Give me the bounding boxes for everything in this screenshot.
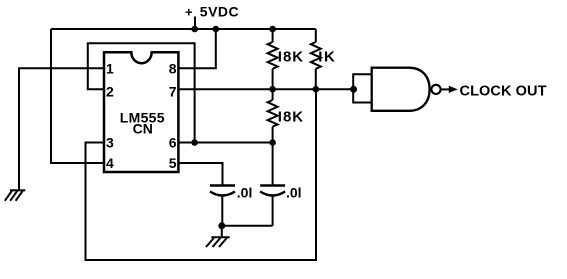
ground (left, pin 1): [5, 190, 26, 201]
logic gate U2 NAND body: [372, 68, 430, 111]
svg-text:CLOCK OUT: CLOCK OUT: [460, 83, 547, 99]
svg-text:.0l: .0l: [286, 185, 302, 201]
output arrow: [442, 88, 450, 90]
wire pin 5 to C1: [178, 163, 222, 186]
ground (bottom, caps): [206, 226, 230, 247]
junction dot R2 bottom on pin 6 line: [269, 139, 276, 146]
wire pin 8 to VCC rail: [178, 29, 215, 68]
inversion bubble: [431, 85, 440, 94]
junction dot caps to ground: [218, 222, 225, 229]
wire VCC rail to pin 4: [51, 29, 104, 163]
IC U1 LM555 outline with notch: [104, 52, 178, 172]
svg-text:.0l: .0l: [237, 185, 253, 201]
junction dot tie at pin 6 line: [191, 139, 198, 146]
svg-text:5VDC: 5VDC: [200, 3, 239, 19]
svg-text:4: 4: [106, 155, 114, 171]
svg-text:IK: IK: [318, 49, 336, 66]
junction dot pin 8 riser on rail: [213, 26, 220, 33]
junction dot +5VDC tap: [191, 26, 198, 33]
junction dot R1 top on rail: [269, 26, 276, 33]
resistor R2 18K (lower): [268, 89, 305, 142]
svg-text:1: 1: [106, 61, 114, 77]
svg-text:6: 6: [169, 134, 177, 150]
svg-text:I8K: I8K: [278, 49, 304, 66]
junction dot NAND input: [350, 86, 357, 93]
capacitor C2 .01: [260, 143, 301, 226]
svg-text:2: 2: [106, 83, 114, 99]
wire pin 6 node: [178, 142, 272, 144]
svg-text:8: 8: [169, 61, 177, 77]
wire C1/C2 bottoms: [222, 225, 273, 227]
svg-text:7: 7: [169, 83, 177, 99]
svg-text:I8K: I8K: [278, 109, 304, 126]
svg-text:CN: CN: [133, 120, 153, 136]
svg-text:5: 5: [169, 155, 177, 171]
power +5VDC: [185, 3, 239, 29]
resistor R1 18K (upper): [268, 29, 305, 89]
svg-text:3: 3: [106, 134, 114, 150]
svg-text:+: +: [185, 5, 193, 20]
wire pin 7 node: [178, 88, 353, 90]
resistor R3 1K: [311, 29, 337, 89]
logic gate NAND input tie box: [353, 74, 372, 102]
wire VCC rail: [51, 28, 316, 30]
wire pin 2 to pin 6 tie: [88, 43, 195, 142]
capacitor C1 .01: [210, 185, 252, 226]
wire pin 1 to ground: [19, 68, 104, 189]
junction dot R1 bottom on pin 7 line: [269, 86, 276, 93]
wire 555 output pin 3 loop to pin 7 node: [86, 89, 317, 260]
junction dot R3 bottom on pin 7 line: [313, 86, 320, 93]
